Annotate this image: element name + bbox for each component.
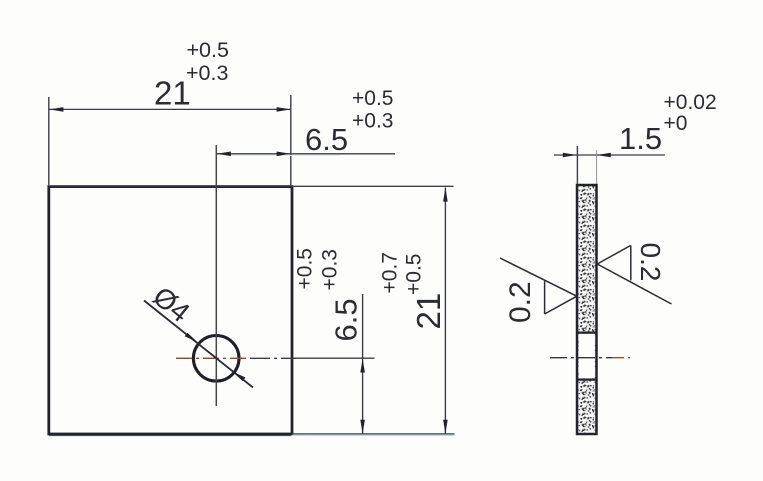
surface finish symbol left: 0.2 label (rotated) <box>504 281 537 323</box>
node: horizontal centerline of hole (dash-dot, reddish) <box>176 357 375 359</box>
dimension 21 top: right extension line <box>290 95 292 185</box>
side view: hole void band <box>577 333 597 380</box>
dimension 21 top: left extension line <box>48 97 50 185</box>
svg-text:+0.3: +0.3 <box>186 61 228 85</box>
leader O4: leader line <box>144 301 253 388</box>
svg-text:+0.5: +0.5 <box>352 87 393 110</box>
svg-text:+0.5: +0.5 <box>294 248 317 289</box>
dimension 21 right vertical: dimension line <box>443 188 448 434</box>
svg-text:+0.3: +0.3 <box>352 110 393 133</box>
dimension 6.5 vertical: value label (rotated) <box>294 248 364 341</box>
dimension 6.5 top: value label <box>305 87 393 157</box>
surface finish symbol right: tail and triangle <box>597 245 671 304</box>
dimension 1.5: value label <box>619 91 717 156</box>
surface finish symbol right: 0.2 label (rotated) <box>635 243 666 282</box>
surface finish symbol left: tail and triangle <box>500 258 577 314</box>
dimension 1.5: right extension line <box>596 150 598 184</box>
svg-text:+0.02: +0.02 <box>664 91 717 114</box>
svg-text:0.2: 0.2 <box>504 281 537 323</box>
svg-text:0.2: 0.2 <box>635 243 666 282</box>
dimension 21 top: dimension line <box>49 107 290 112</box>
wire: bottom edge extension line to right <box>292 434 455 435</box>
side view: hole centerline (dash-dot) <box>550 357 630 359</box>
svg-text:+0.7: +0.7 <box>379 252 402 293</box>
svg-text:21: 21 <box>410 293 447 330</box>
dimension 6.5 vertical: dimension line <box>360 294 365 434</box>
dimension 21 top: value label <box>154 38 229 112</box>
front view: plate outline <box>49 186 292 435</box>
node: vertical centerline of hole / extension for 6.5 dim <box>215 145 217 406</box>
leader O4: value label (rotated along leader) <box>147 281 196 329</box>
svg-text:+0.5: +0.5 <box>403 254 426 295</box>
dimension 21 right: value label (rotated) <box>379 252 448 329</box>
hole O4 circle <box>193 336 239 382</box>
svg-text:6.5: 6.5 <box>305 122 348 157</box>
dimension 1.5: dimension line <box>554 153 665 158</box>
svg-text:1.5: 1.5 <box>619 121 662 156</box>
svg-text:+0: +0 <box>664 112 688 135</box>
wire: top edge extension line to right <box>292 185 454 187</box>
dimension 6.5 top: dimension line <box>217 152 396 157</box>
svg-text:+0.5: +0.5 <box>187 38 229 62</box>
svg-text:+0.3: +0.3 <box>319 249 342 290</box>
side view: plate section outline with stipple fill <box>577 185 597 434</box>
dimension 1.5: left extension line <box>576 146 578 184</box>
svg-text:6.5: 6.5 <box>329 298 364 341</box>
